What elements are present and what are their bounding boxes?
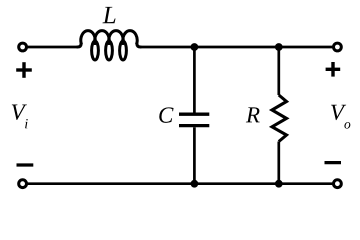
terminal bottom-left [19, 180, 27, 188]
minus right [325, 161, 342, 164]
plus left [16, 62, 32, 78]
resistor R zigzag [272, 95, 287, 142]
label L [103, 7, 116, 23]
resistor R wire upper [277, 47, 280, 95]
label C [159, 107, 173, 122]
node bottom R [275, 180, 283, 188]
capacitor C plates [179, 114, 209, 125]
minus left [17, 163, 34, 166]
wire top right of inductor [141, 46, 333, 49]
terminal top-right [334, 43, 342, 51]
node bottom C [191, 180, 199, 188]
label Vo (o subscript) [344, 122, 350, 128]
node top C [191, 43, 199, 51]
node top R [275, 43, 283, 51]
wire bottom [28, 182, 333, 185]
label Vi (V) [12, 105, 27, 120]
plus right [326, 62, 341, 77]
terminal bottom-right [334, 180, 342, 188]
capacitor C wire upper [193, 47, 196, 113]
label Vi (i subscript) [25, 119, 28, 128]
label R [246, 107, 260, 122]
inductor L [78, 31, 141, 60]
resistor R wire lower [277, 142, 280, 184]
label Vo (V) [331, 105, 346, 120]
capacitor C wire lower [193, 127, 196, 183]
wire top [28, 46, 78, 49]
terminal top-left [19, 43, 27, 51]
